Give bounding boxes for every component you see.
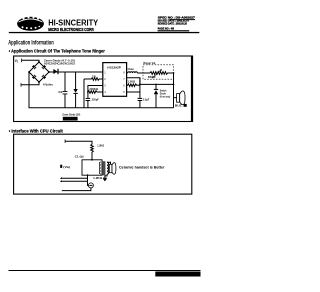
svg-text:8: 8 [123, 71, 125, 75]
svg-text:(Va): (Va) [63, 165, 70, 169]
svg-text:BUZ.: BUZ. [175, 104, 183, 108]
svg-text:5: 5 [123, 90, 125, 94]
svg-text:47μF: 47μF [58, 91, 63, 94]
svg-text:V1: V1 [15, 59, 19, 64]
svg-text:Zener Diode (2V): Zener Diode (2V) [62, 113, 80, 117]
svg-text:7: 7 [123, 77, 125, 81]
svg-text:HS1392P: HS1392P [107, 66, 121, 70]
svg-text:1.2KΩ: 1.2KΩ [97, 144, 104, 148]
svg-text:2.2μF: 2.2μF [143, 98, 150, 102]
svg-text:HZ4C2/HZ4C3/HZ4C1/HZ5: HZ4C2/HZ4C3/HZ4C1/HZ5 [44, 62, 76, 66]
svg-text:(if not use): (if not use) [160, 95, 171, 98]
svg-text:4: 4 [104, 90, 106, 94]
svg-text:REVISED DATE : 2002.03.20: REVISED DATE : 2002.03.20 [158, 22, 187, 26]
svg-text:▪ Interface With CPU Circuit: ▪ Interface With CPU Circuit [9, 128, 63, 134]
svg-text:Choke: Choke [128, 68, 135, 71]
svg-text:Ceramic handset is Better: Ceramic handset is Better [119, 165, 165, 169]
svg-text:B500K: B500K [148, 76, 156, 79]
svg-text:HI-SINCERITY: HI-SINCERITY [48, 18, 98, 28]
svg-text:Application Information: Application Information [8, 39, 54, 46]
svg-text:1: 1 [104, 71, 106, 75]
svg-text:7.5K: 7.5K [92, 76, 96, 79]
svg-text:PAGE NO : 4/6: PAGE NO : 4/6 [158, 27, 175, 31]
svg-text:▪ Application Circuit Of The T: ▪ Application Circuit Of The Telephone T… [9, 48, 105, 54]
svg-text:Ringer Vol.: Ringer Vol. [143, 61, 156, 65]
svg-text:HI Rectifiers: HI Rectifiers [43, 82, 53, 86]
svg-text:220pF: 220pF [92, 98, 99, 101]
svg-text:1.2KΩ (a): 1.2KΩ (a) [93, 176, 107, 180]
svg-text:HI-SINCERITY MICROELECTRONICS: HI-SINCERITY MICROELECTRONICS CORP. [157, 272, 200, 276]
svg-text:2: 2 [104, 77, 106, 81]
svg-text:MICRO ELECTRONICS CORP.: MICRO ELECTRONICS CORP. [48, 27, 94, 32]
svg-text:6: 6 [123, 84, 125, 88]
svg-text:3: 3 [104, 84, 106, 88]
svg-text:C1 (b): C1 (b) [75, 155, 84, 159]
svg-text:1.2KΩ: 1.2KΩ [127, 81, 135, 84]
svg-text:220KΩ: 220KΩ [89, 88, 98, 91]
